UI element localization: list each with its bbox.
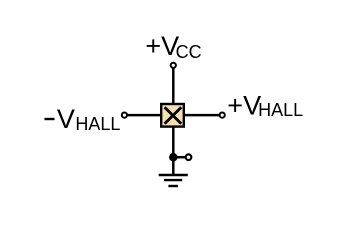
svg-text:HALL: HALL bbox=[258, 100, 303, 120]
Hall element X1 cross bbox=[165, 107, 182, 124]
svg-text:+V: +V bbox=[227, 91, 261, 121]
svg-text:V: V bbox=[57, 104, 75, 134]
label +Vcc bbox=[145, 31, 201, 62]
terminal output bbox=[186, 154, 192, 160]
wire +Vhall horizontal bbox=[185, 114, 220, 117]
wire -Vhall horizontal bbox=[127, 114, 161, 117]
svg-text:HALL: HALL bbox=[75, 114, 120, 134]
terminal +Vcc bbox=[171, 63, 176, 68]
svg-text:+V: +V bbox=[145, 31, 179, 61]
svg-text:CC: CC bbox=[176, 42, 202, 62]
junction node bbox=[169, 153, 178, 162]
terminal +Vhall bbox=[220, 113, 225, 118]
label -Vhall bbox=[45, 104, 121, 134]
wire junction to output terminal bbox=[173, 156, 185, 159]
wire ground vertical bbox=[172, 127, 175, 176]
ground bbox=[159, 175, 188, 186]
label +Vhall bbox=[227, 91, 303, 121]
wire Vcc vertical bbox=[172, 68, 175, 104]
Hall element X1 body bbox=[161, 104, 184, 127]
terminal -Vhall bbox=[122, 113, 127, 118]
